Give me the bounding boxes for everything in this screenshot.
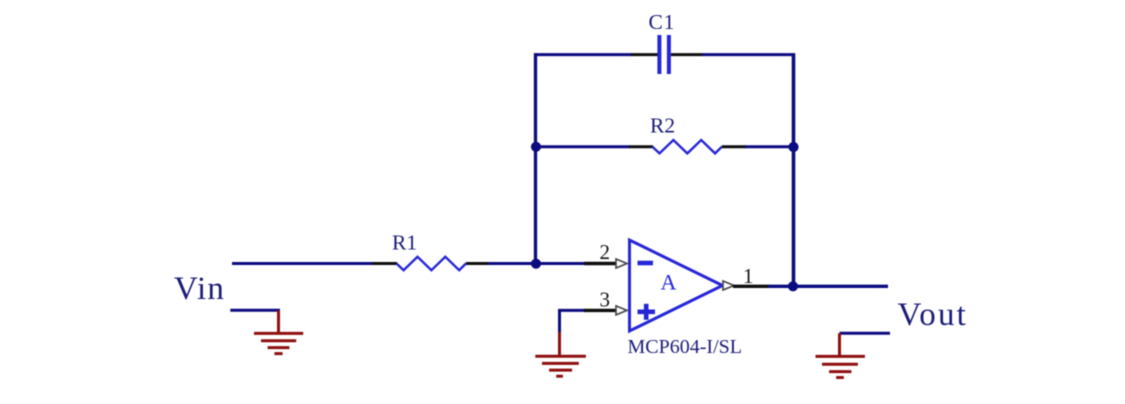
wire: pin3 horizontal	[558, 309, 585, 312]
svg-text:A: A	[661, 270, 677, 295]
pin: R1 right lead	[466, 262, 489, 265]
wire: R1 to inverting input node	[488, 262, 585, 265]
op-amp minus sign	[638, 261, 654, 266]
ground GND1 (Vin)	[254, 310, 303, 353]
wire: Vin stub	[230, 309, 280, 312]
node junction dot at inverting input feed	[531, 259, 541, 269]
capacitor C1	[659, 35, 669, 74]
svg-text:Vout: Vout	[898, 297, 969, 333]
pin: R1 left lead	[372, 262, 397, 265]
svg-text:2: 2	[600, 240, 611, 264]
wire: R2 branch left segment	[536, 145, 631, 148]
ground GND3 (Vout)	[816, 333, 865, 377]
node junction dot left upper (R2/C1 left)	[531, 142, 541, 152]
node junction dot right upper (R2/C1 right)	[788, 142, 798, 152]
pin 3 lead (black)	[584, 309, 616, 312]
wire: output wire to Vout	[768, 285, 888, 288]
pin 2 arrowhead	[616, 259, 627, 268]
wire: right vertical feedback wire	[792, 53, 796, 286]
svg-text:R1: R1	[392, 231, 417, 255]
node junction dot at output	[788, 281, 798, 291]
svg-text:3: 3	[600, 288, 611, 312]
pin 1 lead (black)	[733, 285, 769, 288]
pin: R2 left lead	[629, 145, 653, 148]
ground GND2 (pin3)	[535, 332, 586, 376]
wire: main input wire from Vin to R1	[232, 262, 373, 265]
svg-text:C1: C1	[649, 10, 676, 34]
resistor R2	[652, 140, 721, 153]
op-amp plus sign	[638, 309, 656, 314]
svg-text:R2: R2	[650, 114, 675, 138]
wire: top feedback wire left segment (to C1)	[534, 53, 632, 56]
pin: C1 right lead	[671, 53, 703, 56]
resistor R1	[397, 257, 466, 270]
svg-text:MCP604-I/SL: MCP604-I/SL	[628, 336, 742, 358]
svg-text:1: 1	[743, 264, 754, 288]
wire: top feedback wire right segment	[702, 53, 795, 56]
svg-text:Vin: Vin	[174, 271, 225, 307]
pin 3 arrowhead	[616, 306, 627, 315]
pin 2 lead (black)	[584, 262, 616, 265]
pin: R2 right lead	[722, 145, 746, 148]
pin: C1 left lead	[631, 53, 658, 56]
wire: R2 branch right segment	[745, 145, 795, 148]
op-amp U1 triangle	[630, 240, 723, 331]
pin 1 output arrowhead	[723, 281, 734, 290]
wire: left vertical feedback wire	[534, 53, 537, 264]
wire: Vout stub	[840, 332, 891, 335]
wire: pin3 vertical drop	[558, 310, 561, 333]
